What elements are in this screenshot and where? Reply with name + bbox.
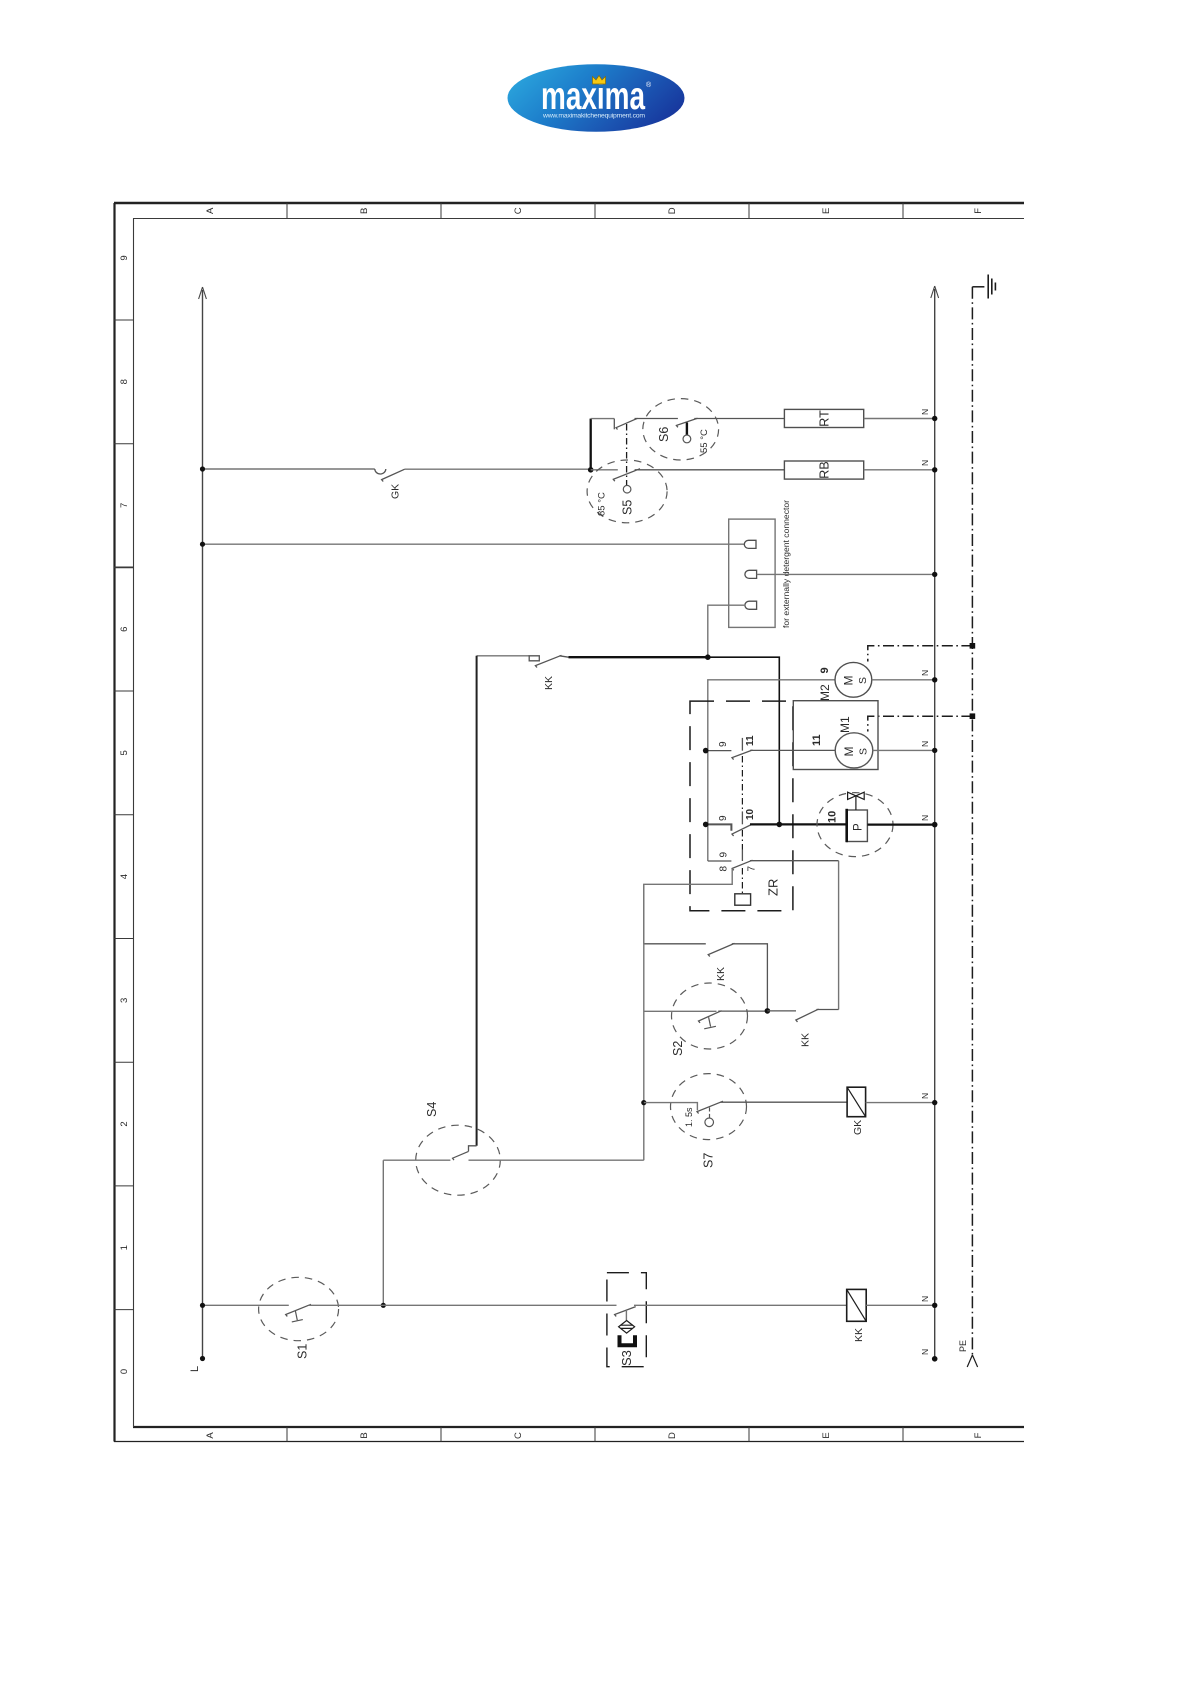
S6 thermal actuator stem: [686, 423, 688, 436]
svg-text:E: E: [821, 1432, 832, 1438]
node: contact 9-10 feed: [703, 822, 709, 828]
wire: main row S3 to KK coil: [634, 1304, 847, 1306]
S3 roller diamond: [619, 1321, 635, 1334]
wire: control feed to pump branch riser (thick): [708, 657, 780, 824]
svg-text:2: 2: [119, 1121, 130, 1126]
wire: M1 to N bus: [873, 749, 935, 751]
svg-text:N: N: [920, 741, 930, 747]
S2 contact blade: [699, 1011, 768, 1023]
svg-text:S3: S3: [619, 1350, 634, 1366]
wire: GK coil to N bus: [866, 1102, 935, 1104]
node: L to main row: [200, 1303, 205, 1308]
node: S5 junction: [588, 467, 594, 473]
wire: KK coil to N bus: [866, 1304, 935, 1306]
node: pin2 to N: [932, 572, 937, 577]
svg-text:9: 9: [819, 667, 831, 673]
relay coil KK: [847, 1289, 867, 1321]
svg-text:S2: S2: [671, 1041, 685, 1056]
svg-text:GK: GK: [852, 1120, 864, 1135]
node: S7 row junction: [641, 1100, 646, 1105]
node: M1 to N: [932, 748, 937, 753]
relay coil ZR: [735, 894, 751, 905]
svg-text:F: F: [973, 1432, 984, 1438]
svg-text:9: 9: [718, 741, 729, 747]
svg-text:C: C: [513, 1432, 524, 1439]
node: pump row riser junction: [777, 822, 783, 828]
node: RB to N: [932, 467, 937, 472]
svg-text:®: ®: [646, 81, 652, 89]
svg-text:10: 10: [827, 811, 839, 823]
svg-text:M: M: [842, 676, 856, 686]
wire: S4 riser branch to S2: [644, 1010, 717, 1012]
svg-text:5: 5: [119, 750, 130, 755]
top letter strip labels A-F: [205, 207, 984, 214]
M1 motor symbol M~: [842, 747, 870, 757]
svg-text:F: F: [973, 208, 984, 214]
svg-text:D: D: [667, 207, 678, 214]
S7 clockwork actuator: [709, 1108, 711, 1118]
svg-text:S: S: [857, 677, 869, 684]
S3 door symbol: [620, 1335, 636, 1345]
PE earth conductor (dash-dot): [972, 287, 987, 1356]
pump P with solenoid valve: [817, 793, 893, 857]
connector pin 2: [745, 570, 757, 578]
timer changeover contact ZR 8|9-7: [708, 850, 839, 871]
pump body P: [847, 810, 868, 842]
S5 dashed enclosure circle: [587, 460, 667, 523]
S3 actuator stem: [625, 1311, 627, 1321]
door switch S3 dashed enclosure: [607, 1273, 646, 1367]
push button S2 (start): [672, 983, 748, 1049]
wire: top heater row from L rail to S5/S6 block: [203, 468, 375, 470]
wire: S4 branch down to main row: [382, 1160, 384, 1305]
M2 motor symbol M~: [842, 676, 870, 686]
svg-text:ZR: ZR: [766, 879, 781, 896]
mechanical link 8 to ZR coil (dash-dot): [741, 868, 743, 894]
S1 contact blade: [286, 1304, 311, 1316]
drawing frame inner border: [133, 219, 1024, 1428]
svg-text:PE: PE: [958, 1340, 968, 1352]
svg-text:RT: RT: [818, 410, 832, 427]
node: contact 9-11 feed: [703, 748, 709, 754]
svg-text:S4: S4: [425, 1102, 439, 1117]
mechanical link 10-8 (dash-dot): [741, 830, 743, 850]
svg-text:S5: S5: [621, 500, 635, 515]
contact KK (wash relay) on control feed: [529, 655, 568, 667]
svg-text:RB: RB: [818, 461, 832, 478]
svg-text:KK: KK: [853, 1328, 865, 1342]
connector pin 1: [744, 540, 756, 548]
wire: S4 row right of contact: [469, 1159, 644, 1161]
svg-text:11: 11: [811, 734, 823, 746]
svg-text:M1: M1: [838, 716, 852, 733]
svg-text:8: 8: [719, 866, 730, 872]
motor M1 (wash pump): [835, 733, 873, 768]
svg-text:for externally detergent conn: for externally detergent connector: [781, 500, 791, 628]
connector X1 for externally detergent: [729, 519, 775, 627]
svg-text:KK: KK: [715, 967, 727, 981]
node: S4 branch on main row: [381, 1303, 386, 1308]
resistor RB (boiler heating element): [784, 461, 863, 479]
node: RT to N: [932, 416, 937, 421]
svg-text:N: N: [920, 670, 930, 676]
svg-text:N: N: [920, 409, 930, 415]
node N : neutral bus with arrow head at top: [931, 286, 939, 1359]
S4 changeover blade: [453, 1146, 477, 1160]
wire: M2 to N bus: [872, 679, 935, 681]
PE junction node at M2 branch: [970, 643, 976, 649]
svg-text:L: L: [189, 1366, 201, 1372]
S1 manual actuator: [292, 1311, 303, 1322]
wire: RB to N bus: [864, 469, 935, 471]
wire: S4 branch riser (S2/S7/S4 node): [643, 884, 645, 1160]
contact KK self-hold (NO) on timer loop: [644, 943, 768, 1011]
svg-text:B: B: [359, 1432, 370, 1438]
wire: terminal 8 loop to KK self-hold contact: [644, 868, 732, 943]
svg-text:KK: KK: [543, 676, 555, 690]
svg-text:9: 9: [119, 255, 130, 260]
svg-text:55 °C: 55 °C: [699, 429, 710, 453]
thermostat contact S5 lower pole (85C): [613, 469, 784, 482]
svg-text:S: S: [858, 748, 870, 755]
svg-text:8: 8: [119, 379, 130, 384]
selector contact S4: [416, 1125, 501, 1195]
wire: S7 row left: [644, 1103, 698, 1111]
push button S1 (on): [259, 1277, 339, 1340]
svg-text:D: D: [667, 1432, 678, 1439]
svg-text:4: 4: [119, 874, 130, 879]
wire: L rail to detergent connector pin 1: [203, 543, 747, 545]
node: KK to N: [932, 1303, 937, 1308]
svg-text:A: A: [205, 207, 216, 214]
wire: pump to N bus (thick): [867, 823, 934, 825]
svg-text:3: 3: [119, 998, 130, 1003]
wire: contact 7 riser down to KK hold contact: [838, 861, 840, 1010]
svg-text:1: 1: [119, 1245, 130, 1250]
N bus end dot: [932, 1356, 938, 1362]
svg-text:GK: GK: [390, 484, 402, 499]
svg-text:7: 7: [119, 503, 130, 508]
svg-text:B: B: [359, 208, 370, 214]
S6 actuator circle: [683, 435, 691, 443]
svg-text:7: 7: [747, 866, 758, 872]
node: control feed junction: [705, 654, 711, 660]
top letter strip dividers: [287, 203, 903, 219]
PE end arrow at bottom: [967, 1355, 977, 1367]
svg-text:1. 5s: 1. 5s: [684, 1107, 694, 1127]
svg-text:M2: M2: [818, 684, 832, 701]
S6 dashed enclosure circle: [643, 399, 719, 460]
node: pump to N: [932, 822, 938, 828]
PE junction node at M1 branch: [970, 713, 976, 719]
crown on x: [593, 76, 606, 85]
svg-text:N: N: [920, 460, 930, 466]
svg-text:E: E: [821, 208, 832, 214]
timer ZR dashed enclosure: [690, 701, 793, 911]
svg-text:C: C: [513, 207, 524, 214]
timer contact ZR 9-10 (pump): [706, 811, 753, 836]
PE branch to motor M1 (dash-dot): [868, 716, 973, 731]
wire: upper thermostat branch: [591, 418, 615, 420]
resistor RT (tank heating element): [784, 409, 863, 427]
svg-text:S1: S1: [296, 1344, 310, 1359]
wire: main row S1 to S3: [309, 1304, 617, 1306]
wire: pump row (thick): [750, 823, 847, 825]
timer contact ZR 9-11: [706, 738, 836, 760]
PE earth symbol at top: [988, 275, 995, 299]
svg-text:0: 0: [119, 1369, 130, 1374]
Maxima logo: [508, 64, 685, 132]
motor M1 housing box: [793, 701, 878, 770]
bottom letter strip dividers: [287, 1427, 903, 1442]
svg-text:6: 6: [119, 627, 130, 632]
PE branch to motor M2 (dash-dot): [868, 646, 973, 662]
valve symbol above pump: [848, 792, 865, 810]
drawing frame outer border: [114, 203, 1024, 1442]
thermostat S6 contact with thermal actuator: [676, 418, 784, 427]
svg-text:KK: KK: [800, 1033, 812, 1047]
S3 contact blade: [615, 1307, 636, 1317]
node: L to heater row: [200, 466, 205, 471]
timed contact S7 (1.5s): [671, 1074, 747, 1140]
node: M2 to N: [932, 677, 937, 682]
svg-text:S7: S7: [702, 1153, 716, 1168]
contact GK (boiler contactor NO contact) on heater row: [375, 469, 405, 482]
motor M2 (drain pump): [835, 662, 872, 697]
left number strip dividers: [114, 320, 133, 1310]
thermostat contact S5 upper pole (on 55C branch): [614, 418, 678, 429]
svg-text:9: 9: [719, 852, 730, 858]
wire: S4 riser to door interlock contact KK: [477, 655, 530, 657]
left number strip labels 9-0: [119, 255, 130, 1374]
wire: connector pin 2 to N bus: [757, 573, 935, 575]
wire: main bottom row from L rail: [203, 1304, 289, 1306]
connector pin 3: [745, 601, 757, 609]
svg-text:P: P: [853, 823, 865, 831]
svg-text:11: 11: [745, 735, 756, 746]
svg-text:N: N: [920, 1349, 930, 1355]
node: S2/KK junction: [765, 1008, 771, 1014]
svg-text:N: N: [920, 815, 930, 821]
wire: heater row hook down to 85C row: [590, 419, 592, 470]
node L : phase rail with arrow head at top: [199, 287, 207, 1359]
S5 actuator circle: [623, 485, 631, 493]
node: L rail to detergent wire: [200, 542, 205, 547]
node: GK to N: [932, 1100, 937, 1105]
svg-text:9: 9: [718, 815, 729, 821]
svg-text:S6: S6: [657, 427, 671, 442]
wire: S4 row left of contact: [383, 1159, 450, 1161]
bottom letter strip labels A-F: [205, 1432, 984, 1439]
S7 contact blade: [697, 1101, 847, 1113]
wire: connector pin 3 down to control node: [708, 605, 746, 657]
svg-text:M: M: [842, 747, 856, 757]
svg-text:N: N: [920, 1296, 930, 1302]
svg-text:85 °C: 85 °C: [597, 492, 608, 516]
svg-text:A: A: [205, 1432, 216, 1439]
wire: RT to N bus: [864, 418, 935, 420]
svg-text:10: 10: [745, 808, 756, 820]
S7 actuator circle: [705, 1118, 714, 1127]
svg-text:N: N: [920, 1093, 930, 1099]
wire: KK contact to ZR node (thick): [569, 656, 708, 658]
mechanical link 11-10 (dash-dot): [741, 756, 743, 811]
svg-text:www.maximakitchenequipment.com: www.maximakitchenequipment.com: [542, 113, 645, 120]
S2 manual actuator: [704, 1017, 716, 1029]
wire: drain motor M2 branch feeding timer contacts: [708, 680, 835, 861]
S5/S6 mechanical link (dash-dot): [626, 424, 628, 485]
contact KK (NO) to timer 7 line: [767, 1009, 838, 1022]
L terminal dot: [200, 1356, 205, 1361]
contactor coil GK: [847, 1087, 866, 1117]
wire: 85C row through S5: [591, 469, 618, 471]
